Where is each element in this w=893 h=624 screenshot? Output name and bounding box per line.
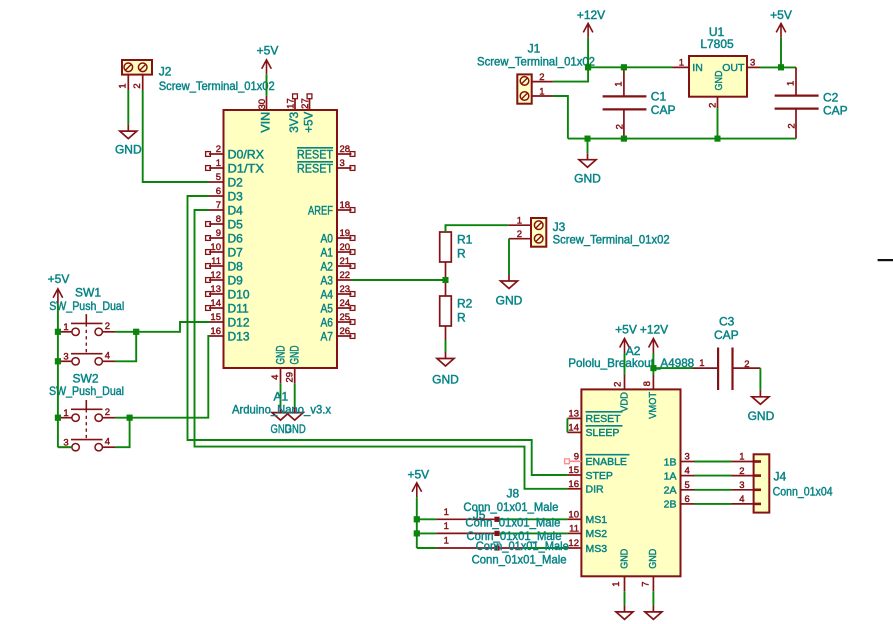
wire +5V down	[780, 38, 782, 67]
svg-text:VMOT: VMOT	[647, 391, 659, 419]
Arduino pin 26 A7 (right)	[337, 335, 352, 337]
Arduino pin 15 D12	[209, 321, 224, 323]
power +5V (switches)	[53, 289, 63, 304]
junction +12V rail	[585, 64, 591, 70]
junction SW1 pin3	[55, 358, 61, 364]
svg-text:D3: D3	[228, 190, 244, 204]
junction SW2 out	[127, 415, 133, 421]
junction	[778, 64, 784, 70]
svg-text:+12V: +12V	[577, 8, 605, 22]
svg-text:14: 14	[568, 422, 579, 433]
ground under R2	[437, 352, 454, 366]
junction MS1 row	[414, 516, 420, 522]
svg-text:25: 25	[340, 312, 351, 323]
svg-text:SLEEP: SLEEP	[586, 427, 620, 439]
svg-text:A2: A2	[321, 260, 334, 274]
svg-text:6: 6	[216, 186, 221, 197]
capacitor C2	[795, 67, 797, 95]
A4988 pin 4 1A (right)	[681, 475, 695, 477]
svg-text:1: 1	[444, 536, 449, 547]
power +12V	[583, 23, 593, 38]
svg-text:MS3: MS3	[586, 543, 608, 555]
svg-text:J8: J8	[507, 487, 520, 501]
svg-text:OUT: OUT	[722, 62, 745, 74]
A4988 pin 13 RESET	[567, 417, 581, 419]
svg-text:+12V: +12V	[640, 322, 668, 336]
A4988 pin 3 1B (right)	[681, 461, 695, 463]
Arduino pin 24 A5 (right)	[337, 307, 352, 309]
wire U1 out	[760, 66, 796, 68]
wire +5V to VIN	[266, 74, 268, 96]
svg-text:C3: C3	[719, 315, 735, 329]
power +5V (A4988 VDD)	[620, 339, 630, 354]
A4988 pin 2 VDD	[624, 375, 626, 389]
junction MS2 row	[414, 530, 420, 536]
junction	[55, 329, 61, 335]
svg-text:+5V: +5V	[407, 467, 429, 481]
A4988 pin 6 2B (right)	[681, 503, 695, 505]
svg-text:3V3: 3V3	[287, 111, 301, 132]
svg-text:16: 16	[568, 479, 579, 490]
svg-text:19: 19	[340, 228, 351, 239]
svg-text:GND: GND	[713, 70, 725, 90]
A4988 pin 11 MS2	[567, 532, 581, 534]
power +5V (jumpers)	[412, 483, 422, 498]
svg-text:D10: D10	[228, 288, 250, 302]
wire J1 pin1 to bottom rail	[553, 96, 568, 139]
svg-text:20: 20	[340, 242, 351, 253]
junction	[585, 136, 591, 142]
Arduino pin 13 D10	[209, 293, 224, 295]
svg-text:Conn_01x01_Male: Conn_01x01_Male	[465, 515, 560, 529]
svg-text:1: 1	[611, 582, 622, 587]
Arduino pin 30 VIN (top)	[266, 96, 268, 110]
junction	[443, 277, 449, 283]
J2 pin 2	[142, 75, 144, 90]
svg-text:1: 1	[63, 322, 68, 333]
Arduino pin 25 A6 (right)	[337, 321, 352, 323]
svg-text:21: 21	[340, 256, 351, 267]
svg-text:11: 11	[569, 523, 579, 534]
power +5V (Arduino VIN)	[262, 60, 272, 75]
Arduino pin 2 D0/RX	[209, 153, 224, 155]
wire +5V to VDD	[624, 353, 626, 375]
svg-text:24: 24	[340, 298, 351, 309]
junction VMOT C3	[650, 365, 656, 371]
J3 screw 2	[534, 234, 543, 243]
svg-text:SW_Push_Dual: SW_Push_Dual	[49, 384, 124, 398]
svg-text:26: 26	[340, 326, 351, 337]
junction SW1 pin1	[55, 329, 61, 335]
svg-text:C2: C2	[823, 91, 839, 105]
svg-text:2: 2	[614, 124, 625, 129]
svg-text:GND: GND	[496, 293, 523, 307]
wire D3 to STEP	[188, 196, 568, 475]
wire bottom rail	[568, 138, 796, 140]
svg-text:3: 3	[750, 57, 755, 68]
svg-text:5: 5	[685, 480, 690, 491]
wire VMOT to C3	[653, 367, 692, 369]
jumper connector pin row 3	[417, 547, 437, 549]
capacitor C3	[692, 367, 718, 369]
svg-text:1: 1	[679, 57, 684, 68]
svg-text:7: 7	[641, 582, 652, 587]
svg-text:Screw_Terminal_01x02: Screw_Terminal_01x02	[553, 232, 670, 246]
A4988 pin 12 MS3	[567, 547, 581, 549]
J4 pin 1 and wire	[732, 461, 754, 463]
ground power supply	[579, 153, 596, 167]
svg-text:A3: A3	[321, 274, 334, 288]
svg-text:RESET: RESET	[297, 148, 334, 162]
svg-text:27: 27	[300, 98, 311, 109]
svg-text:2B: 2B	[664, 499, 677, 511]
svg-text:2: 2	[132, 83, 143, 88]
ground under C3	[752, 390, 769, 404]
Arduino pin 20 A1 (right)	[337, 251, 352, 253]
Arduino pin 23 A4 (right)	[337, 293, 352, 295]
Arduino pin 9 D6	[209, 237, 224, 239]
A4988 pin 5 2A (right)	[681, 489, 695, 491]
wire GND pin4	[280, 383, 282, 406]
svg-text:9: 9	[574, 451, 579, 462]
svg-text:1: 1	[613, 82, 624, 87]
J4 pin 3 and wire	[732, 489, 754, 491]
Arduino Nano A1 body	[224, 110, 338, 368]
svg-text:2: 2	[216, 144, 221, 155]
svg-text:GND: GND	[618, 548, 630, 568]
svg-text:DIR: DIR	[586, 484, 605, 496]
svg-text:30: 30	[257, 99, 268, 110]
junction	[55, 415, 61, 421]
svg-text:SW1: SW1	[75, 285, 101, 299]
svg-text:+5V: +5V	[770, 8, 792, 22]
svg-text:D4: D4	[228, 204, 244, 218]
Arduino pin 4 GND (bottom)	[280, 368, 282, 383]
svg-text:2A: 2A	[664, 485, 677, 497]
svg-text:R2: R2	[457, 296, 473, 310]
svg-text:CAP: CAP	[651, 103, 676, 117]
svg-text:VDD: VDD	[618, 392, 630, 412]
svg-text:1: 1	[517, 215, 522, 226]
svg-text:29: 29	[285, 372, 296, 383]
svg-text:1: 1	[118, 83, 129, 88]
svg-text:IN: IN	[692, 62, 703, 74]
svg-text:5: 5	[216, 172, 221, 183]
svg-text:A7: A7	[321, 330, 334, 344]
svg-text:D8: D8	[228, 260, 244, 274]
svg-text:D13: D13	[228, 330, 250, 344]
svg-text:2: 2	[613, 382, 624, 387]
Arduino pin 27 +5V (top)	[309, 99, 311, 110]
J4 pin 4 and wire	[732, 503, 754, 505]
svg-text:GND: GND	[574, 172, 601, 186]
svg-text:23: 23	[340, 284, 351, 295]
svg-text:+5V: +5V	[302, 112, 316, 133]
junction	[621, 64, 627, 70]
ground under A4988 pin1	[616, 605, 633, 619]
svg-text:R: R	[457, 310, 466, 324]
junction	[621, 136, 627, 142]
junction SW2 pin1	[55, 415, 61, 421]
J2 pin 1	[127, 75, 129, 90]
A4988 A2 body	[581, 389, 680, 576]
svg-text:Arduino_Nano_v3.x: Arduino_Nano_v3.x	[232, 403, 331, 417]
svg-text:12: 12	[568, 538, 579, 549]
Arduino pin 7 D4	[209, 209, 224, 211]
svg-text:8: 8	[642, 381, 653, 386]
svg-text:D6: D6	[228, 232, 244, 246]
wire J1 pin2 to rail	[553, 67, 588, 81]
svg-text:MS2: MS2	[586, 528, 608, 540]
Arduino pin 18 AREF (right)	[337, 209, 352, 211]
svg-text:A0: A0	[321, 232, 334, 246]
junction C1 top	[621, 64, 627, 70]
ground under J3	[501, 275, 518, 289]
junction U1 gnd rail	[715, 136, 721, 142]
J3 pin 1	[509, 224, 531, 226]
svg-text:D2: D2	[228, 176, 244, 190]
wire SW1 pin4 link	[115, 332, 136, 362]
Arduino pin 3 RESET (right)	[337, 167, 352, 169]
Arduino pin 12 D9	[209, 279, 224, 281]
A4988 pin 7 GND	[652, 576, 654, 591]
svg-text:2: 2	[517, 229, 522, 240]
svg-text:C1: C1	[651, 90, 667, 104]
svg-text:1A: 1A	[664, 470, 677, 482]
svg-text:MS1: MS1	[586, 514, 608, 526]
svg-text:D1/TX: D1/TX	[228, 162, 265, 176]
A4988 pin 9 ENABLE	[570, 460, 582, 462]
wire D4 to DIR	[195, 210, 568, 489]
svg-text:1: 1	[216, 158, 221, 169]
svg-text:GND: GND	[432, 372, 459, 386]
svg-text:R1: R1	[457, 232, 473, 246]
Arduino pin 5 D2	[209, 181, 224, 183]
svg-text:3: 3	[685, 452, 690, 463]
junction divider	[443, 277, 449, 283]
svg-text:R: R	[457, 246, 466, 260]
svg-text:4: 4	[739, 494, 744, 505]
svg-text:1B: 1B	[664, 456, 677, 468]
svg-text:9: 9	[216, 228, 221, 239]
junction	[127, 415, 133, 421]
Arduino pin 19 A0 (right)	[337, 237, 352, 239]
A4988 pin 8 VMOT	[652, 375, 654, 389]
wire R2 to gnd	[445, 340, 447, 352]
A4988 pin 14 SLEEP	[567, 431, 581, 433]
svg-text:A4: A4	[321, 288, 334, 302]
Arduino pin 21 A2 (right)	[337, 265, 352, 267]
svg-text:A1: A1	[321, 246, 334, 260]
svg-text:Screw_Terminal_01x02: Screw_Terminal_01x02	[159, 79, 275, 93]
svg-text:13: 13	[568, 408, 579, 419]
svg-text:VIN: VIN	[258, 112, 272, 133]
svg-text:11: 11	[211, 256, 221, 267]
svg-text:1: 1	[539, 86, 544, 97]
J1 pin 1	[532, 95, 553, 97]
svg-text:GND: GND	[285, 422, 306, 436]
svg-text:Conn_01x01_Male: Conn_01x01_Male	[476, 539, 569, 553]
wire +5V jumper rail	[416, 497, 418, 548]
svg-text:GND: GND	[273, 345, 287, 364]
svg-text:2: 2	[739, 466, 744, 477]
svg-text:A5: A5	[321, 302, 334, 316]
svg-text:1: 1	[699, 358, 704, 369]
resistor R2	[440, 296, 452, 326]
svg-text:+5V: +5V	[257, 44, 279, 58]
svg-text:GND: GND	[748, 409, 775, 423]
svg-text:Conn_01x01_Male: Conn_01x01_Male	[463, 500, 558, 514]
switch SW1	[72, 328, 79, 335]
Arduino pin 29 GND (bottom)	[294, 368, 296, 383]
svg-text:J2: J2	[159, 64, 172, 78]
junction +5V out	[778, 64, 784, 70]
svg-text:Conn_01x04: Conn_01x04	[773, 485, 833, 499]
J1 screw 2	[520, 77, 529, 86]
wire divider top	[446, 225, 509, 232]
U1 pin 2	[717, 97, 719, 108]
svg-text:CAP: CAP	[823, 104, 848, 118]
wire C3 to gnd	[759, 368, 761, 390]
J2 screw 2	[138, 63, 147, 72]
svg-text:4: 4	[105, 437, 110, 448]
svg-text:4: 4	[685, 466, 690, 477]
svg-text:3: 3	[63, 352, 68, 363]
J4 pin 2 and wire	[732, 475, 754, 477]
svg-text:4: 4	[270, 375, 281, 380]
junction	[414, 516, 420, 522]
svg-text:10: 10	[568, 509, 579, 520]
wire SW2 pin4 link	[115, 418, 130, 448]
power +5V (regulator out)	[776, 23, 786, 38]
svg-text:15: 15	[568, 465, 579, 476]
svg-text:8: 8	[216, 214, 221, 225]
svg-text:SW_Push_Dual: SW_Push_Dual	[49, 299, 124, 313]
svg-text:L7805: L7805	[700, 37, 734, 51]
svg-text:A6: A6	[321, 316, 334, 330]
wire GND pin29	[294, 383, 296, 406]
svg-text:18: 18	[340, 200, 351, 211]
wire SW2 pin3 stub	[58, 446, 72, 448]
wire J3 pin2 to gnd	[508, 239, 510, 275]
Arduino pin 11 D8	[209, 265, 224, 267]
regulator U1 body	[689, 56, 747, 97]
wire A4988 gnd1	[624, 591, 626, 605]
Arduino pin 17 3V3 (top)	[294, 99, 296, 110]
junction	[715, 136, 721, 142]
J3 pin 2	[509, 238, 531, 240]
wire SW2 out	[115, 336, 209, 418]
connector J4 body	[754, 454, 770, 512]
svg-text:STEP: STEP	[586, 470, 613, 482]
Arduino pin 10 D7	[209, 251, 224, 253]
Arduino pin 22 A3 (right)	[337, 279, 352, 281]
svg-text:D12: D12	[228, 316, 250, 330]
svg-text:RESET: RESET	[586, 413, 622, 425]
wire rail to gnd	[587, 139, 589, 154]
wire RESET-SLEEP bracket	[566, 418, 568, 432]
jumper connector pin row 2	[417, 532, 437, 534]
svg-text:22: 22	[340, 270, 351, 281]
connector J2 body	[122, 60, 152, 75]
wire J2 pin1 to gnd	[127, 90, 129, 125]
svg-text:D5: D5	[228, 218, 244, 232]
J3 screw 1	[534, 221, 543, 230]
junction SW1 out	[133, 329, 139, 335]
ground under Arduino pin4	[272, 406, 289, 420]
svg-text:Conn_01x01_Male: Conn_01x01_Male	[472, 553, 567, 567]
wire +12V to VMOT	[652, 353, 654, 375]
svg-text:ENABLE: ENABLE	[586, 456, 627, 468]
junction	[133, 329, 139, 335]
svg-text:GND: GND	[115, 143, 142, 157]
U1 pin 1	[673, 66, 690, 68]
power +12V (A4988 VMOT)	[649, 339, 659, 354]
wire top rail	[588, 66, 672, 68]
svg-text:D0/RX: D0/RX	[228, 148, 265, 162]
svg-text:3: 3	[340, 158, 345, 169]
svg-text:GND: GND	[647, 548, 659, 568]
resistor R1	[440, 232, 452, 262]
svg-text:3: 3	[739, 480, 744, 491]
svg-text:1: 1	[739, 452, 744, 463]
svg-text:CAP: CAP	[714, 328, 739, 342]
jumper connector pin row 1	[417, 518, 437, 520]
svg-text:RESET: RESET	[297, 162, 334, 176]
svg-text:17: 17	[286, 98, 297, 109]
svg-text:15: 15	[210, 312, 221, 323]
wire A3 to divider	[352, 279, 446, 281]
svg-text:A1: A1	[274, 389, 289, 403]
A4988 pin 10 MS1	[567, 518, 581, 520]
svg-text:+5V: +5V	[615, 322, 637, 336]
svg-text:1: 1	[786, 81, 797, 86]
svg-text:10: 10	[210, 242, 221, 253]
ground under A4988 pin7	[645, 605, 662, 619]
U1 pin 3	[747, 66, 760, 68]
svg-text:2: 2	[539, 72, 544, 83]
Arduino pin 1 D1/TX	[209, 167, 224, 169]
junction	[650, 365, 656, 371]
svg-text:6: 6	[685, 494, 690, 505]
wire SW1 out	[115, 322, 209, 332]
svg-text:1: 1	[444, 507, 449, 518]
junction gnd rail	[585, 136, 591, 142]
svg-text:D7: D7	[228, 246, 244, 260]
svg-text:1: 1	[444, 521, 449, 532]
svg-text:28: 28	[340, 144, 351, 155]
Arduino pin 28 RESET (right)	[337, 153, 352, 155]
junction	[55, 358, 61, 364]
wire +5V switch rail	[57, 303, 59, 447]
svg-text:D11: D11	[228, 302, 249, 316]
wire U1 gnd down	[717, 108, 719, 139]
A4988 pin 15 STEP	[567, 474, 581, 476]
svg-text:12: 12	[210, 270, 221, 281]
switch SW2	[72, 414, 79, 421]
svg-text:13: 13	[210, 284, 221, 295]
svg-text:2: 2	[744, 359, 749, 370]
svg-text:AREF: AREF	[308, 204, 333, 218]
wire A4988 gnd7	[652, 591, 654, 605]
junction	[585, 64, 591, 70]
svg-text:GND: GND	[288, 345, 302, 364]
svg-text:2: 2	[105, 407, 110, 418]
svg-text:J4: J4	[774, 470, 787, 484]
border line fragment	[878, 259, 893, 261]
ground under J2	[120, 125, 137, 139]
svg-text:4: 4	[105, 351, 110, 362]
